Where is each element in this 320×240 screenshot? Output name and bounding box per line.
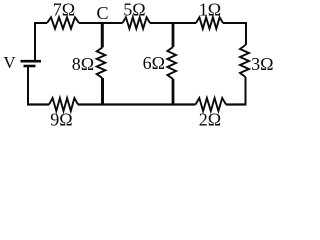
svg-text:2Ω: 2Ω (199, 110, 221, 130)
resistor R 8ohm (97, 48, 106, 79)
wire 6ohm lead bottom (172, 79, 175, 106)
wire bottom right segment (226, 103, 246, 105)
battery V top plate (21, 60, 42, 63)
wire top right segment (223, 22, 246, 24)
wire bottom middle segment (78, 103, 196, 105)
svg-text:8Ω: 8Ω (72, 54, 94, 74)
resistor R 3ohm (240, 45, 249, 77)
svg-text:9Ω: 9Ω (50, 110, 72, 130)
wire top between 7ohm and C (79, 22, 123, 24)
resistor R 7ohm (47, 17, 79, 28)
wire right vertical bottom (245, 77, 247, 106)
svg-text:V: V (3, 53, 16, 72)
wire bottom left segment (28, 103, 49, 105)
wire 8ohm lead bottom (101, 78, 104, 106)
wire 6ohm lead top (172, 22, 175, 47)
wire node C vertical lead top (101, 22, 104, 48)
wire top between 5ohm and 1ohm (150, 22, 196, 24)
wire left bottom vertical (27, 67, 29, 106)
svg-text:C: C (96, 3, 108, 23)
resistor R 2ohm (196, 98, 227, 111)
resistor R 1ohm (196, 17, 223, 28)
resistor R 6ohm (167, 47, 176, 79)
wire left top vertical (34, 22, 36, 61)
svg-text:7Ω: 7Ω (53, 0, 75, 20)
svg-text:5Ω: 5Ω (123, 0, 145, 20)
svg-text:1Ω: 1Ω (199, 0, 221, 20)
resistor R 5ohm (123, 17, 151, 28)
wire top left segment (35, 22, 47, 24)
wire right vertical top (245, 22, 247, 45)
svg-text:3Ω: 3Ω (251, 54, 273, 74)
resistor R 9ohm (49, 98, 78, 111)
svg-text:6Ω: 6Ω (143, 53, 165, 73)
battery V bottom plate (24, 65, 36, 68)
